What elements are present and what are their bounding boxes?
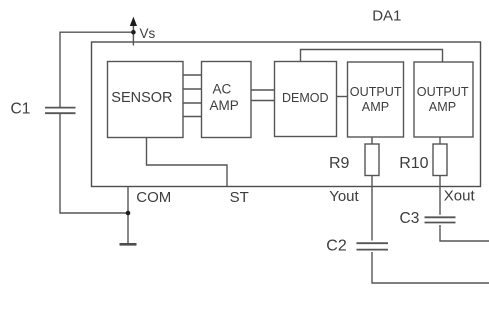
wire SENSOR to AC AMP line 1 [183,74,202,76]
svg-text:C1: C1 [11,101,31,118]
wire C1 to COM node [60,113,128,213]
op-amp OUTPUT AMP (Y channel) [348,62,404,137]
svg-text:C2: C2 [326,238,347,255]
resistor R10 [433,144,447,176]
wire Vs node to C1 [60,32,133,107]
svg-text:OUTPUT: OUTPUT [417,85,469,99]
ground symbol (COM) [120,243,137,246]
svg-text:AC: AC [213,82,232,97]
svg-text:AMP: AMP [210,98,239,113]
svg-text:Vs: Vs [140,26,156,41]
wire C3 to right edge [440,225,489,241]
svg-text:DA1: DA1 [372,8,401,25]
svg-text:AMP: AMP [362,100,389,114]
svg-text:Yout: Yout [329,188,359,205]
power terminal Vs arrow [130,17,137,26]
wire SENSOR bottom to ST pin [147,138,228,187]
svg-text:SENSOR: SENSOR [111,90,172,106]
block AC AMP [202,62,252,138]
junction dot at COM node [126,211,131,216]
svg-text:C3: C3 [400,210,420,227]
wire SENSOR to AC AMP line 2 [183,88,202,90]
wire AC AMP to DEMOD line 2 [251,100,275,102]
block SENSOR [108,62,184,138]
wire DEMOD top to OUTPUT AMP (X) top [301,50,443,63]
wire R9 to C2 (Yout net) [371,176,373,241]
resistor R9 [365,144,379,176]
block DEMOD [275,62,337,137]
wire OUTPUT AMP (X) to R10 [439,137,441,144]
wire OUTPUT AMP (Y) to R9 [371,137,373,144]
wire DEMOD to OUTPUT AMP (Y) [337,96,348,98]
IC outline DA1 [92,42,481,187]
wire R10 to C3 (Xout net) [439,176,441,215]
wire AC AMP to DEMOD line 1 [251,89,275,91]
capacitor C2 [357,243,389,249]
wire COM pin to ground [127,187,129,245]
op-amp OUTPUT AMP (X channel) [414,62,473,137]
wire SENSOR to AC AMP line 4 [183,116,202,118]
wire Vs node to IC pin [132,24,134,46]
svg-text:R9: R9 [329,155,350,172]
svg-text:OUTPUT: OUTPUT [350,85,402,99]
svg-text:DEMOD: DEMOD [282,91,329,105]
svg-text:AMP: AMP [429,100,456,114]
junction dot at Vs node [131,30,136,35]
svg-text:ST: ST [230,189,249,206]
wire SENSOR to AC AMP line 3 [183,102,202,104]
capacitor C1 [45,108,76,114]
svg-text:R10: R10 [399,155,428,172]
svg-text:COM: COM [136,189,171,206]
capacitor C3 [425,217,456,222]
wire C2 to bottom right [372,252,489,283]
svg-text:Xout: Xout [444,187,476,204]
